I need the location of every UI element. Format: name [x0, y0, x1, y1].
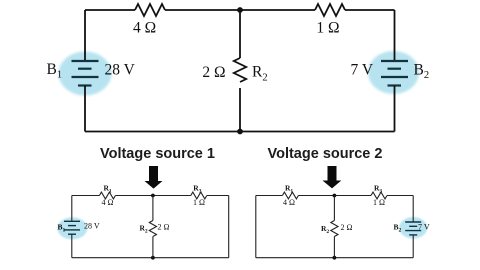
wire mini2 right edge upper (to battery) [412, 196, 414, 223]
wire mini2 top-right segment [387, 195, 413, 197]
battery B2 plates [381, 61, 408, 86]
wire mini2 top-left segment [256, 195, 283, 197]
wire left branch upper (to battery B1) [84, 10, 86, 61]
node junction bottom (middle branch) [237, 129, 243, 135]
wire left branch lower (battery B1 to bottom) [84, 86, 86, 132]
wire top-middle segment (R 4ohm to node, node to R 1ohm) [165, 9, 315, 11]
battery B2 mini plates [405, 222, 421, 235]
resistor R2 2 ohm (middle branch) [234, 58, 246, 82]
svg-text:1 Ω: 1 Ω [193, 198, 205, 207]
node mini2 top junction [333, 194, 337, 198]
resistor R3 mini1 (1 ohm) [191, 192, 207, 199]
wire mini2 top-middle segment [298, 195, 371, 197]
svg-text:4 Ω: 4 Ω [133, 20, 156, 37]
svg-text:2 Ω: 2 Ω [202, 64, 225, 81]
wire middle branch upper [239, 10, 241, 58]
wire middle branch lower [239, 88, 241, 132]
wire right branch lower (battery B2 to bottom) [394, 86, 396, 132]
wire mini1 top-middle segment [115, 195, 190, 197]
arrow down (voltage source 1) [145, 166, 163, 189]
battery B2 highlight ellipse [368, 51, 419, 94]
wire mini1 bottom edge [72, 257, 229, 259]
wire mini2 middle branch upper [333, 196, 335, 221]
battery B1 mini highlight ellipse [57, 217, 87, 239]
battery B2 mini highlight ellipse [399, 217, 427, 239]
svg-text:7 V: 7 V [351, 62, 374, 79]
wire right branch upper (to battery B2) [394, 10, 396, 61]
node junction top (middle branch) [237, 7, 243, 13]
resistor 1 ohm [315, 4, 345, 16]
wire bottom of top circuit [85, 131, 395, 133]
wire mini1 middle branch upper [152, 196, 154, 221]
node mini1 bottom junction [151, 256, 155, 260]
wire mini1 top-left segment [72, 195, 100, 197]
arrow down (voltage source 2) [323, 166, 342, 188]
battery B1 highlight ellipse [59, 52, 112, 96]
node mini1 top junction [151, 194, 155, 198]
wire mini2 bottom edge [256, 257, 413, 259]
battery B1 plates [72, 61, 99, 86]
resistor R2 mini2 (2 ohm, middle) [331, 221, 338, 237]
battery B1 mini plates [64, 221, 80, 234]
svg-text:2 Ω: 2 Ω [341, 223, 353, 232]
wire mini1 left edge lower (battery to bottom) [71, 234, 73, 258]
resistor R2 mini1 (2 ohm, middle) [149, 221, 156, 237]
wire mini2 left edge [255, 196, 257, 258]
resistor 4 ohm [135, 4, 165, 16]
resistor R1 mini1 (4 ohm) [99, 192, 115, 199]
node mini2 bottom junction [333, 256, 337, 260]
svg-text:7 V: 7 V [418, 223, 430, 232]
wire mini2 middle branch lower [333, 237, 335, 258]
wire mini1 right edge [228, 196, 230, 258]
svg-text:2 Ω: 2 Ω [158, 223, 170, 232]
resistor R1 mini2 (4 ohm) [282, 192, 298, 199]
wire mini1 middle branch lower [152, 237, 154, 258]
svg-text:Voltage source 2: Voltage source 2 [268, 146, 383, 162]
svg-text:4 Ω: 4 Ω [102, 198, 114, 207]
wire top-right segment (R 1ohm to right corner) [345, 9, 395, 11]
wire mini2 right edge lower (battery to bottom) [412, 235, 414, 258]
svg-text:4 Ω: 4 Ω [283, 198, 295, 207]
wire top-left segment (B1 to R 4ohm) [85, 9, 135, 11]
wire mini1 left edge upper (to battery) [71, 196, 73, 222]
wire mini1 top-right segment [207, 195, 229, 197]
svg-text:Voltage source 1: Voltage source 1 [100, 146, 215, 162]
svg-text:1 Ω: 1 Ω [316, 20, 339, 37]
resistor R3 mini2 (1 ohm) [371, 192, 387, 199]
svg-text:1 Ω: 1 Ω [373, 198, 385, 207]
svg-text:28 V: 28 V [84, 222, 100, 231]
svg-text:28 V: 28 V [105, 62, 136, 79]
